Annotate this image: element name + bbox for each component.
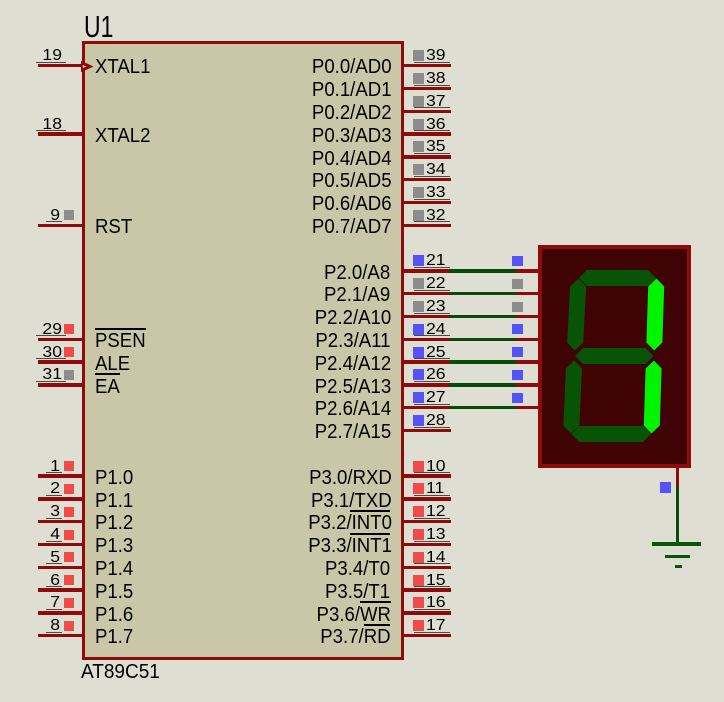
pin name P1.7 (95, 627, 133, 647)
pin 27 logic state indicator (413, 392, 424, 403)
pin 13 wire (P3.3/INT1) (404, 543, 451, 546)
pin 23 logic state indicator (413, 301, 424, 312)
segment c (on) (644, 361, 662, 434)
pin 5 wire (P1.4) (38, 566, 85, 569)
pin 12 logic state indicator (413, 506, 424, 517)
pin name P0.3/AD3 (312, 126, 391, 146)
segment d (off) (572, 426, 652, 442)
pin 39 number (426, 48, 446, 64)
pin 7 wire (P1.6) (38, 611, 85, 614)
pin 14 logic state indicator (413, 552, 424, 563)
pin 30 number (27, 345, 62, 361)
ground net logic indicator (660, 482, 671, 493)
pin 28 number (426, 413, 446, 429)
pin name P3.5/T1 (325, 582, 390, 602)
wire junction indicator (net a) (512, 256, 523, 266)
segment a (off) (579, 270, 656, 286)
active-low overline for EA (95, 373, 120, 375)
pin 21 logic state indicator (413, 255, 424, 266)
pin 8 number (27, 618, 60, 634)
active-low overline for INT1 (350, 533, 390, 535)
pin 7 number (27, 595, 60, 611)
pin 23 wire (P2.2/A10) (404, 315, 451, 318)
wire net P2.2 to 7-seg pin c (449, 315, 517, 318)
wire junction indicator (net d) (512, 324, 523, 334)
pin 3 logic state indicator (64, 507, 74, 517)
pin 8 wire (P1.7) (38, 634, 85, 637)
pin 3 wire (P1.2) (38, 520, 85, 523)
pin 28 wire (P2.7/A15) (404, 429, 451, 432)
pin 16 logic state indicator (413, 597, 424, 608)
pin name P3.7/RD (320, 627, 390, 647)
wire net P2.5 to 7-seg pin f (449, 383, 517, 386)
pin name P1.3 (95, 536, 133, 556)
pin 30 logic state indicator (64, 347, 74, 357)
pin 26 number (426, 367, 446, 383)
pin name P1.1 (95, 491, 133, 511)
pin 10 logic state indicator (413, 461, 424, 472)
7-seg display pin d stub (516, 338, 539, 341)
XTAL1 clock input arrow (80, 59, 96, 74)
pin 38 number (426, 71, 446, 87)
pin 24 number (426, 322, 446, 338)
wire junction indicator (net b) (512, 279, 523, 289)
pin 30 wire (ALE) (38, 360, 85, 363)
pin 6 logic state indicator (64, 575, 74, 585)
pin name P1.6 (95, 605, 133, 625)
pin 2 logic state indicator (64, 484, 74, 494)
pin 15 logic state indicator (413, 575, 424, 586)
pin 31 logic state indicator (64, 370, 74, 380)
pin 16 wire (P3.6/WR) (404, 611, 451, 614)
pin name P2.4/A12 (315, 354, 391, 374)
pin 2 number (27, 481, 60, 497)
pin 15 number (426, 573, 446, 589)
pin 39 logic state indicator (413, 50, 424, 61)
7-seg display pin c stub (516, 315, 539, 318)
pin 36 wire (P0.3/AD3) (404, 132, 451, 135)
pin 24 wire (P2.3/A11) (404, 338, 451, 341)
pin 18 wire (XTAL2) (38, 132, 85, 135)
wire net P2.3 to 7-seg pin d (449, 338, 517, 341)
pin 33 logic state indicator (413, 187, 424, 198)
pin 28 logic state indicator (413, 415, 424, 426)
7-seg display pin g stub (516, 406, 539, 409)
pin 12 wire (P3.2/INT0) (404, 520, 451, 523)
segment g (off) (575, 348, 654, 364)
pin 21 wire (P2.0/A8) (404, 269, 451, 272)
7-segment display DS1 (538, 245, 691, 468)
pin name P0.5/AD5 (312, 171, 391, 191)
pin 11 logic state indicator (413, 483, 424, 494)
pin name XTAL1 (95, 57, 150, 77)
active-low overline for INT0 (350, 510, 390, 512)
pin 9 number (27, 208, 60, 224)
7-seg display pin f stub (516, 383, 539, 386)
pin 19 wire (XTAL1) (38, 64, 85, 67)
pin name P3.2/INT0 (308, 513, 390, 533)
pin 8 logic state indicator (64, 621, 74, 631)
pin name P0.2/AD2 (312, 103, 391, 123)
pin 25 number (426, 345, 446, 361)
pin name P0.0/AD0 (312, 57, 391, 77)
pin 9 logic state indicator (64, 210, 74, 220)
segment b (on) (646, 279, 664, 351)
pin name P3.4/T0 (325, 559, 390, 579)
pin name P0.6/AD6 (312, 194, 391, 214)
wire junction indicator (net c) (512, 302, 523, 312)
pin 33 wire (P0.6/AD6) (404, 201, 451, 204)
pin name P3.1/TXD (311, 491, 391, 511)
pin name P1.5 (95, 582, 133, 602)
pin name P2.5/A13 (315, 377, 391, 397)
pin 5 number (27, 550, 60, 566)
pin 12 number (426, 504, 446, 520)
pin name P1.0 (95, 468, 133, 488)
pin 29 number (27, 322, 62, 338)
pin 34 number (426, 162, 446, 178)
pin name P3.0/RXD (309, 468, 391, 488)
pin name PSEN (95, 331, 146, 351)
wire junction indicator (net e) (512, 347, 523, 357)
pin 3 number (27, 504, 60, 520)
U1 reference designator (84, 11, 113, 42)
pin name P0.7/AD7 (312, 217, 391, 237)
pin 23 number (426, 299, 446, 315)
display body (540, 247, 689, 466)
microcontroller U1 body (AT89C51) (82, 41, 404, 660)
wire junction indicator (net f) (512, 370, 523, 380)
pin 32 number (426, 208, 446, 224)
pin 13 number (426, 527, 446, 543)
display common cathode pin stub (676, 465, 679, 488)
pin 4 logic state indicator (64, 530, 74, 540)
U1 value label AT89C51 (81, 662, 160, 682)
pin 4 wire (P1.3) (38, 543, 85, 546)
pin name RST (95, 217, 132, 237)
pin 33 number (426, 185, 446, 201)
pin 27 number (426, 390, 446, 406)
pin 5 logic state indicator (64, 552, 74, 562)
pin 7 logic state indicator (64, 598, 74, 608)
pin 11 number (426, 481, 444, 497)
pin 14 number (426, 550, 446, 566)
pin 31 wire (EA) (38, 383, 85, 386)
pin 37 logic state indicator (413, 96, 424, 107)
pin 21 number (426, 253, 446, 269)
pin 29 logic state indicator (64, 324, 74, 334)
7-seg display pin a stub (516, 269, 539, 272)
pin 1 number (27, 459, 60, 475)
wire net P2.0 to 7-seg pin a (449, 269, 517, 272)
pin name P2.6/A14 (315, 399, 391, 419)
pin 38 wire (P0.1/AD1) (404, 87, 451, 90)
wire net P2.6 to 7-seg pin g (449, 406, 517, 409)
pin 26 wire (P2.5/A13) (404, 383, 451, 386)
pin 15 wire (P3.5/T1) (404, 588, 451, 591)
wire junction indicator (net g) (512, 393, 523, 403)
pin 16 number (426, 595, 446, 611)
pin 32 wire (P0.7/AD7) (404, 224, 451, 227)
pin name ALE (95, 354, 130, 374)
pin name XTAL2 (95, 126, 150, 146)
pin name EA (95, 377, 120, 397)
pin 17 wire (P3.7/RD) (404, 634, 451, 637)
pin name P1.4 (95, 559, 133, 579)
pin 10 number (426, 459, 446, 475)
pin 24 logic state indicator (413, 324, 424, 335)
pin 2 wire (P1.1) (38, 497, 85, 500)
pin 34 logic state indicator (413, 164, 424, 175)
segment e (off) (563, 361, 582, 434)
pin 37 number (426, 94, 446, 110)
7-seg display pin e stub (516, 360, 539, 363)
pin 4 number (27, 527, 60, 543)
pin name P2.3/A11 (315, 331, 391, 351)
active-low overline for PSEN (95, 328, 146, 330)
pin 32 logic state indicator (413, 210, 424, 221)
pin 19 number (27, 48, 62, 64)
pin 38 logic state indicator (413, 73, 424, 84)
pin 27 wire (P2.6/A14) (404, 406, 451, 409)
pin name P1.2 (95, 513, 133, 533)
pin 10 wire (P3.0/RXD) (404, 474, 451, 477)
pin name P3.6/WR (317, 605, 391, 625)
pin 26 logic state indicator (413, 369, 424, 380)
pin 25 logic state indicator (413, 347, 424, 358)
pin name P0.4/AD4 (312, 149, 391, 169)
active-low overline for WR (360, 601, 391, 603)
wire net P2.1 to 7-seg pin b (449, 292, 517, 295)
pin name P2.7/A15 (315, 422, 391, 442)
active-low overline for RD (364, 624, 391, 626)
ground wire (676, 487, 679, 544)
7-seg display pin b stub (516, 292, 539, 295)
pin 22 logic state indicator (413, 278, 424, 289)
pin name P2.0/A8 (324, 263, 390, 283)
pin name P0.1/AD1 (312, 80, 391, 100)
pin 6 number (27, 573, 60, 589)
pin 17 number (426, 618, 446, 634)
pin 18 number (27, 117, 62, 133)
pin 22 number (426, 276, 446, 292)
pin 35 wire (P0.4/AD4) (404, 155, 451, 158)
pin 6 wire (P1.5) (38, 588, 85, 591)
pin 35 logic state indicator (413, 141, 424, 152)
pin 25 wire (P2.4/A12) (404, 360, 451, 363)
segment f (off) (567, 279, 586, 351)
pin 13 logic state indicator (413, 529, 424, 540)
pin 29 wire (PSEN) (38, 338, 85, 341)
pin 35 number (426, 139, 446, 155)
pin 31 number (27, 367, 62, 383)
pin name P3.3/INT1 (308, 536, 390, 556)
pin 1 wire (P1.0) (38, 474, 85, 477)
pin name P2.1/A9 (324, 285, 390, 305)
pin 22 wire (P2.1/A9) (404, 292, 451, 295)
pin 11 wire (P3.1/TXD) (404, 497, 451, 500)
pin 36 number (426, 117, 446, 133)
pin 34 wire (P0.5/AD5) (404, 178, 451, 181)
pin 9 wire (RST) (38, 224, 85, 227)
pin 39 wire (P0.0/AD0) (404, 64, 451, 67)
pin 36 logic state indicator (413, 119, 424, 130)
pin 17 logic state indicator (413, 620, 424, 631)
pin 14 wire (P3.4/T0) (404, 566, 451, 569)
pin name P2.2/A10 (315, 308, 391, 328)
pin 1 logic state indicator (64, 461, 74, 471)
wire net P2.4 to 7-seg pin e (449, 360, 517, 363)
pin 37 wire (P0.2/AD2) (404, 110, 451, 113)
ground symbol (652, 542, 701, 546)
